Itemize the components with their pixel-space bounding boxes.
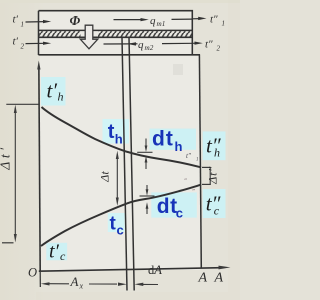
- cyan highlight patch t_h: [103, 119, 130, 144]
- hot fluid curve t_h: [42, 107, 202, 167]
- svg-text:t″: t″: [210, 14, 218, 26]
- cyan highlight patch t_c: [108, 213, 125, 232]
- A axis: [39, 268, 222, 272]
- svg-text:c: c: [176, 206, 183, 221]
- svg-text:1: 1: [222, 20, 226, 28]
- svg-text:m2: m2: [145, 44, 154, 52]
- tick at t'_h level: [6, 103, 38, 105]
- svg-text:t″: t″: [186, 152, 191, 160]
- svg-text:q: q: [150, 15, 156, 27]
- svg-text:1: 1: [196, 158, 199, 163]
- cyan highlight patch t'_c: [46, 243, 67, 260]
- svg-text:h: h: [214, 146, 220, 160]
- heat flux hollow arrow through wall: [80, 25, 98, 49]
- dimension line A_x: [41, 282, 50, 285]
- wall hatching left of arrow: [39, 31, 80, 36]
- svg-text:Δt″: Δt″: [206, 166, 220, 185]
- dimension bracket Δt'': [202, 166, 211, 168]
- svg-text:h: h: [115, 132, 123, 147]
- dt_h differential ticks and arrows: [137, 151, 152, 153]
- dA strip line left: [122, 38, 127, 291]
- svg-text:2: 2: [21, 43, 25, 51]
- cyan highlight patch dt_c: [151, 192, 197, 217]
- cyan highlight patch dt_h: [150, 129, 197, 150]
- t axis: [39, 66, 40, 271]
- svg-text:m1: m1: [157, 20, 166, 28]
- svg-text:t′: t′: [49, 241, 60, 263]
- svg-text:Φ: Φ: [70, 13, 81, 28]
- cyan highlight patch t''_h: [203, 131, 226, 160]
- inlet arrow t'1: [26, 21, 46, 23]
- separating wall upper line: [39, 29, 193, 31]
- flow arrow q_m1: [114, 19, 143, 21]
- svg-text:c: c: [214, 204, 220, 218]
- svg-text:t′: t′: [13, 14, 19, 26]
- wall hatching right of arrow: [98, 31, 192, 36]
- wire q_m2 to box edge: [162, 42, 192, 44]
- dimension line Δt at strip: [116, 155, 118, 201]
- svg-text:h: h: [58, 90, 64, 104]
- svg-text:Δt: Δt: [98, 171, 112, 183]
- svg-text:h: h: [175, 139, 183, 154]
- svg-text:dA: dA: [148, 263, 162, 277]
- svg-text:A: A: [70, 274, 79, 289]
- svg-text:1: 1: [21, 21, 25, 29]
- dA dimension arrow right side: [135, 283, 144, 286]
- svg-text:O: O: [28, 266, 37, 280]
- outlet arrow t''1: [192, 18, 200, 20]
- outlet arrow t''2: [192, 42, 196, 44]
- heat exchanger box outline: [39, 11, 201, 55]
- cyan highlight patch t''_c: [203, 189, 226, 218]
- svg-text:t: t: [108, 121, 115, 143]
- cyan highlight patch t'_h: [41, 77, 66, 106]
- svg-text:dt: dt: [157, 195, 178, 218]
- svg-text:A: A: [214, 271, 224, 286]
- dA strip line right: [129, 38, 134, 291]
- axis stub below origin: [39, 271, 41, 287]
- svg-text:c: c: [60, 249, 66, 263]
- paper background: [0, 0, 240, 300]
- svg-text:Δt′: Δt′: [0, 144, 13, 170]
- separating wall lower line: [39, 36, 193, 38]
- total area line A: [199, 55, 201, 269]
- tick at t'_c level: [2, 242, 14, 244]
- svg-text:q: q: [138, 39, 144, 51]
- inlet arrow t'2: [26, 42, 46, 44]
- wire q_m1 to box edge: [172, 18, 193, 20]
- svg-text:t″: t″: [205, 39, 213, 51]
- dt_c differential ticks and arrows: [140, 195, 155, 197]
- cold fluid curve t_c: [41, 185, 201, 246]
- scan smudge: [173, 64, 183, 75]
- svg-text:t: t: [110, 214, 117, 235]
- svg-text:x: x: [79, 282, 84, 291]
- svg-text:c: c: [117, 223, 124, 238]
- svg-text:A: A: [198, 271, 208, 286]
- svg-text:dt: dt: [152, 128, 174, 151]
- dimension line Δt': [14, 110, 16, 237]
- svg-text:t′: t′: [13, 36, 19, 48]
- svg-text:2: 2: [217, 45, 221, 53]
- svg-text:t′: t′: [47, 79, 58, 103]
- flow arrow q_m2 (pointing left): [104, 43, 138, 45]
